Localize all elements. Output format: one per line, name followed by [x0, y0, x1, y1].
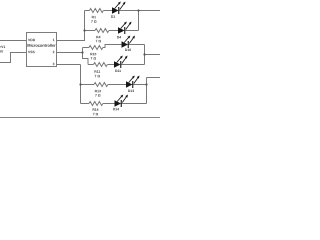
svg-text:R14: R14: [92, 108, 98, 112]
svg-text:3: 3: [53, 62, 55, 66]
svg-text:D10: D10: [125, 48, 131, 52]
svg-text:7 Ω: 7 Ω: [91, 57, 97, 61]
svg-text:7 Ω: 7 Ω: [93, 112, 99, 116]
svg-text:Microcontroller: Microcontroller: [27, 43, 56, 48]
svg-text:7 Ω: 7 Ω: [91, 20, 97, 24]
svg-text:7 Ω: 7 Ω: [95, 94, 101, 98]
svg-text:VSS: VSS: [28, 50, 36, 54]
svg-text:D13: D13: [128, 89, 134, 93]
svg-text:R1: R1: [92, 15, 96, 19]
svg-text:0V: 0V: [0, 50, 4, 54]
svg-text:D11: D11: [115, 69, 121, 73]
svg-text:R11: R11: [94, 70, 100, 74]
svg-text:D14: D14: [113, 107, 119, 111]
svg-text:1: 1: [53, 38, 55, 42]
svg-text:7 Ω: 7 Ω: [96, 39, 102, 43]
svg-text:VDD: VDD: [28, 38, 36, 42]
svg-text:7 Ω: 7 Ω: [95, 74, 101, 78]
svg-text:+V1: +V1: [0, 45, 5, 49]
svg-text:D1: D1: [111, 15, 115, 19]
svg-text:D4: D4: [117, 35, 121, 39]
svg-text:2: 2: [53, 50, 55, 54]
